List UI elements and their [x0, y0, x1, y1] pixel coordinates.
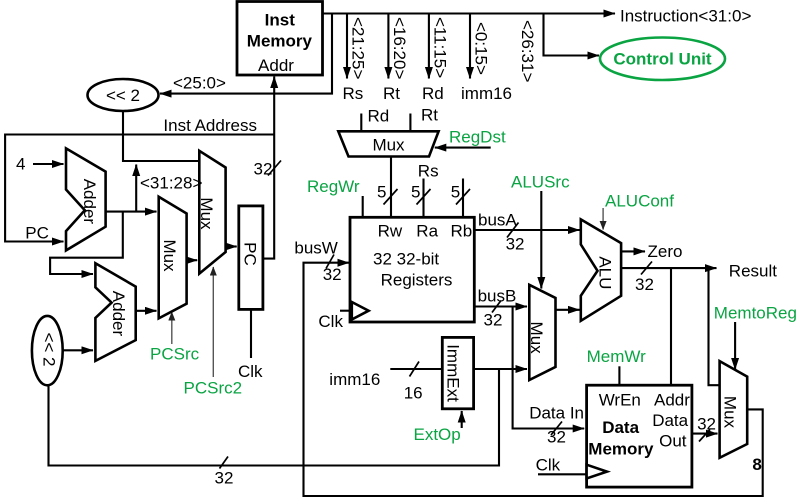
svg-text:Inst: Inst: [265, 11, 296, 30]
slash on Data Out: [699, 430, 710, 442]
slash on busA: [507, 223, 519, 238]
svg-text:<< 2: << 2: [40, 332, 59, 366]
svg-text:Rt: Rt: [383, 84, 400, 103]
slash on Data In: [551, 422, 562, 436]
wire: MemWr control stub: [618, 366, 620, 385]
wire: PC+4 down to branch Adder input: [50, 212, 123, 274]
slash on Ra: [417, 189, 431, 205]
wire: ALU Result output: [621, 267, 716, 269]
svg-text:32: 32: [697, 415, 716, 434]
ImmExt box: [442, 337, 473, 408]
svg-text:<11:15>: <11:15>: [430, 17, 449, 78]
shifter << 2 (jump, top): [88, 79, 159, 111]
wire: Rd field drop: [428, 14, 430, 79]
wire: RegDst control arrow: [435, 147, 491, 149]
svg-text:Adder: Adder: [80, 179, 99, 225]
wire: Result down to Data Memory Addr: [670, 268, 672, 385]
wire: Adder1 output PC+4 to PCSrc mux: [106, 211, 157, 213]
svg-text:<< 2: << 2: [106, 86, 140, 105]
svg-text:ALUConf: ALUConf: [605, 192, 674, 211]
ALUSrc mux: [529, 285, 555, 380]
svg-text:Data In: Data In: [529, 404, 584, 423]
wire: <26:31> opcode to Control Unit: [544, 14, 600, 56]
svg-text:32: 32: [547, 428, 566, 447]
PCSrc mux: [159, 197, 187, 319]
wire: ExtOp control arrow: [461, 411, 463, 428]
adder A2 (branch): [95, 263, 135, 361]
wire: PC output up to Inst Memory Addr: [263, 77, 274, 259]
wire: imm16 into ImmExt: [390, 368, 442, 370]
svg-text:busB: busB: [478, 287, 517, 306]
wire: instruction bus from Inst Memory to Instruction<31:0>: [323, 12, 616, 14]
wire: Result down to MemtoReg mux input: [709, 268, 720, 385]
wire: Data Memory Clk stub: [538, 473, 587, 475]
wire: ImmExt output to ALUSrc mux: [474, 368, 527, 370]
svg-text:PC: PC: [25, 224, 49, 243]
slash on busB: [492, 301, 501, 313]
svg-text:Addr: Addr: [654, 391, 690, 410]
svg-text:<16:20>: <16:20>: [390, 17, 409, 79]
svg-text:16: 16: [404, 384, 423, 403]
wire: PCSrc control line: [171, 312, 173, 344]
wire: PCSrc mux output to jump mux: [187, 259, 198, 261]
svg-text:Mux: Mux: [527, 322, 546, 355]
wire: busA from Registers to ALU: [474, 229, 579, 231]
svg-text:<26:31>: <26:31>: [518, 20, 537, 82]
slash on Rw: [384, 189, 398, 205]
Data Memory clock wedge: [587, 465, 607, 479]
wire: << 2 output down to jump mux: [123, 110, 199, 161]
slash on bottom 32 wire: [220, 457, 229, 469]
ALU U1: [581, 219, 621, 320]
wire: imm16 field drop: [469, 14, 471, 79]
wire: Rw select line: [390, 157, 392, 218]
svg-text:5: 5: [451, 182, 460, 201]
Control Unit ellipse: [600, 38, 725, 81]
svg-text:Adder: Adder: [109, 291, 128, 337]
wire: Rd stub into RegDst mux: [360, 114, 362, 132]
adder A1 (PC+4): [66, 148, 106, 250]
wire: Ra select line: [422, 179, 424, 218]
svg-text:8: 8: [752, 455, 761, 474]
wire: PCSrc2 control line: [212, 267, 214, 377]
svg-text:PCSrc2: PCSrc2: [184, 379, 243, 398]
svg-text:32: 32: [506, 235, 525, 254]
svg-text:ImmExt: ImmExt: [444, 344, 463, 402]
svg-text:32: 32: [635, 275, 654, 294]
svg-text:Ra: Ra: [416, 222, 438, 241]
wire: PC+4 <31:28> up to jump address line: [135, 165, 137, 212]
svg-text:<25:0>: <25:0>: [173, 74, 226, 93]
svg-text:Mux: Mux: [372, 136, 405, 155]
svg-text:32 32-bit: 32 32-bit: [373, 250, 439, 269]
wire: Data Out to MemtoReg mux: [692, 433, 718, 435]
slash on imm16: [410, 362, 420, 377]
wire: Rb select line: [462, 179, 464, 218]
svg-text:Result: Result: [729, 262, 777, 281]
svg-text:PC: PC: [241, 242, 260, 266]
svg-text:Memory: Memory: [247, 32, 313, 51]
svg-text:<21:25>: <21:25>: [349, 17, 368, 79]
svg-text:Rs: Rs: [343, 84, 364, 103]
wire: jump mux output to PC: [226, 245, 237, 247]
svg-text:Mux: Mux: [197, 197, 216, 230]
svg-text:32: 32: [215, 469, 234, 488]
svg-text:Control Unit: Control Unit: [613, 50, 712, 69]
svg-text:Data: Data: [652, 411, 688, 430]
slash on Result: [641, 262, 652, 275]
svg-text:Rs: Rs: [418, 162, 439, 181]
Inst Memory box: [237, 2, 323, 76]
PC register box: [239, 206, 263, 310]
svg-text:5: 5: [377, 182, 386, 201]
svg-text:32: 32: [323, 265, 342, 284]
wire: jump field <25:0> down and left into << 2: [160, 14, 332, 94]
wire: busB from Registers to ALUSrc mux: [474, 305, 527, 307]
svg-text:Inst Address: Inst Address: [163, 116, 257, 135]
svg-text:Clk: Clk: [536, 456, 561, 475]
wire: Rt field drop: [387, 14, 389, 79]
wire: Rt stub into RegDst mux: [409, 114, 411, 132]
register file clock wedge: [352, 302, 369, 320]
wire: branch Adder output to PCSrc mux: [136, 310, 157, 312]
svg-text:imm16: imm16: [329, 370, 380, 389]
wire: MemtoReg control into mux: [734, 322, 736, 370]
wire: constant 4 into Adder: [33, 163, 64, 165]
svg-text:<0:15>: <0:15>: [472, 22, 491, 75]
svg-text:Mux: Mux: [160, 239, 179, 272]
svg-text:32: 32: [484, 311, 503, 330]
wire: bottom << 2 output into branch Adder: [63, 349, 93, 351]
svg-text:busW: busW: [294, 239, 337, 258]
MemtoReg mux: [720, 361, 748, 458]
svg-text:ALU: ALU: [596, 256, 615, 289]
svg-text:<31:28>: <31:28>: [140, 174, 202, 193]
svg-text:Addr: Addr: [258, 56, 294, 75]
wire: Zero flag output: [621, 250, 645, 252]
svg-text:MemtoReg: MemtoReg: [714, 304, 797, 323]
svg-text:WrEn: WrEn: [599, 391, 641, 410]
svg-text:32: 32: [254, 160, 273, 179]
svg-text:Clk: Clk: [318, 312, 343, 331]
svg-text:ALUSrc: ALUSrc: [511, 173, 570, 192]
svg-text:Mux: Mux: [721, 396, 740, 429]
svg-text:Rd: Rd: [368, 107, 390, 126]
wire: Registers Clk stub: [340, 310, 352, 312]
wire: PC Clk stub: [250, 309, 252, 358]
svg-text:Data: Data: [602, 418, 639, 437]
wire: Inst Address to PC adder input: [5, 135, 274, 242]
slash on PC output: [268, 161, 281, 176]
slash on busW: [326, 255, 334, 269]
svg-text:PCSrc: PCSrc: [150, 345, 200, 364]
svg-text:Instruction<31:0>: Instruction<31:0>: [620, 7, 751, 26]
wire: busW return path from MemtoReg mux to Registers: [304, 263, 763, 496]
wire: immediate feed down and into bottom << 2: [49, 369, 500, 466]
slash on Rb: [456, 189, 470, 205]
wire: Rs field drop: [346, 14, 348, 79]
svg-text:ExtOp: ExtOp: [414, 425, 461, 444]
svg-text:Rw: Rw: [378, 222, 403, 241]
svg-text:5: 5: [411, 182, 420, 201]
svg-text:Rt: Rt: [421, 106, 438, 125]
svg-text:Rb: Rb: [451, 222, 473, 241]
svg-text:imm16: imm16: [461, 84, 512, 103]
wire: ALUConf control line: [602, 208, 604, 230]
svg-text:Registers: Registers: [381, 271, 453, 290]
jump mux (PCSrc2): [199, 151, 225, 274]
register file box: [350, 217, 474, 322]
wire: ALUSrc control into mux: [540, 191, 542, 289]
wire: ALUSrc mux output to ALU: [556, 309, 580, 311]
shifter << 2 (branch, bottom): [32, 316, 63, 385]
wire: RegWr control stub: [362, 196, 364, 217]
svg-text:busA: busA: [478, 211, 517, 230]
svg-text:Memory: Memory: [588, 440, 654, 459]
svg-text:RegWr: RegWr: [307, 177, 360, 196]
svg-text:4: 4: [16, 155, 25, 174]
svg-text:RegDst: RegDst: [449, 128, 506, 147]
wire: busB down to Data Memory Data In: [513, 307, 585, 429]
RegDst mux: [338, 131, 438, 156]
svg-text:Out: Out: [659, 432, 687, 451]
svg-text:MemWr: MemWr: [587, 347, 647, 366]
Data Memory box: [587, 385, 692, 487]
svg-text:Zero: Zero: [648, 242, 683, 261]
svg-text:Rd: Rd: [422, 84, 444, 103]
